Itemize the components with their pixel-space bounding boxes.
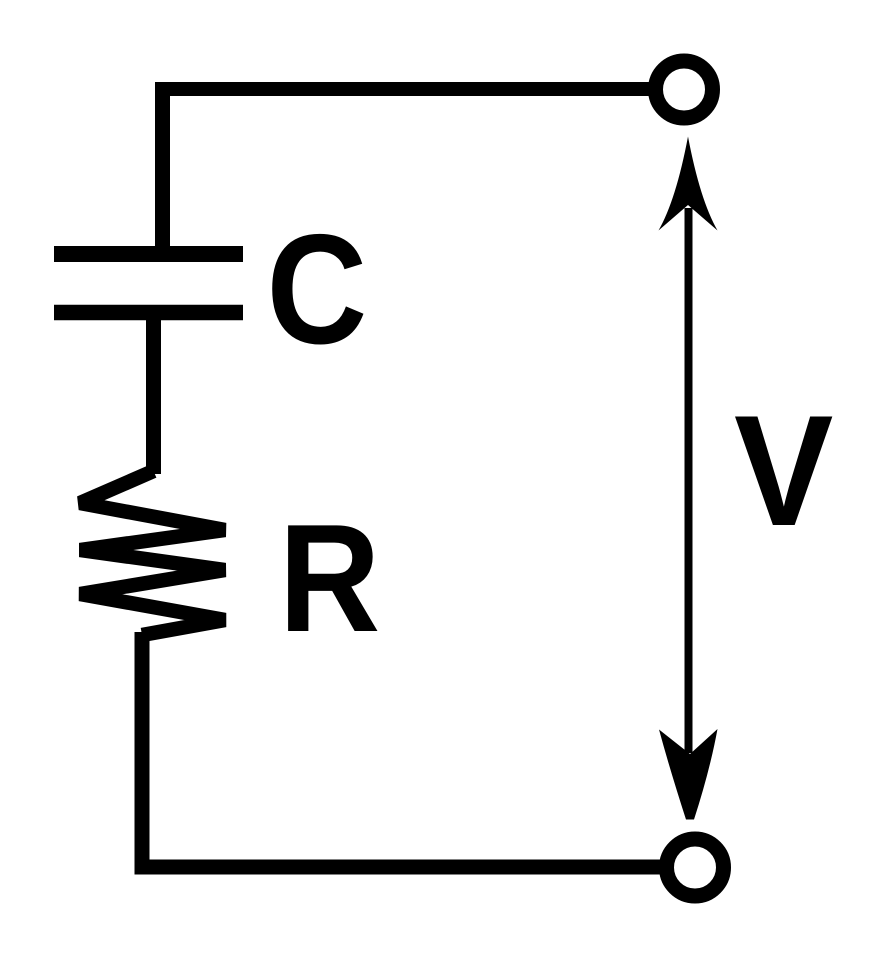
wire W3 capacitor to resistor [146,318,161,474]
wire W5 bottom horizontal [135,860,662,875]
voltage arrow V [659,137,718,820]
svg-text:R: R [279,493,381,664]
wire W4 resistor to bottom [135,632,150,874]
wire W2 top-left vertical [155,82,170,252]
capacitor C [54,254,243,313]
svg-text:C: C [267,203,368,377]
terminal node top [656,61,713,118]
terminal node bottom [667,839,724,896]
svg-text:V: V [734,382,833,559]
wire W1 top horizontal [155,82,652,96]
resistor R [80,471,225,635]
